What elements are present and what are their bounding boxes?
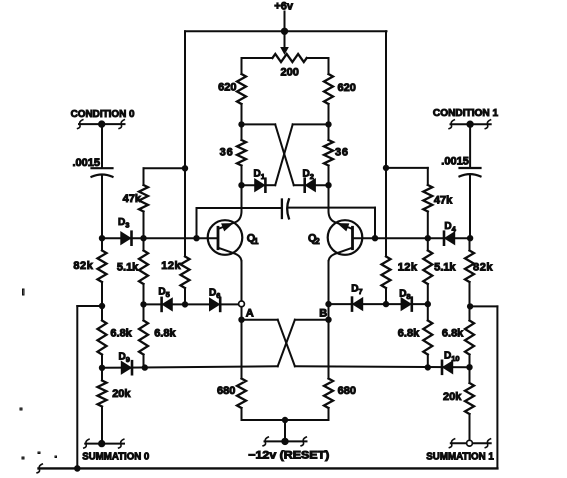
svg-text:CONDITION 0: CONDITION 0 (71, 109, 135, 120)
svg-text:12k: 12k (398, 262, 418, 274)
svg-text:CONDITION 1: CONDITION 1 (433, 108, 499, 119)
svg-text:82k: 82k (73, 260, 93, 272)
svg-text:SUMMATION 1: SUMMATION 1 (426, 451, 494, 462)
svg-text:82k: 82k (473, 261, 493, 273)
svg-text:6.8k: 6.8k (154, 328, 176, 340)
svg-text:2: 2 (315, 236, 320, 246)
svg-text:620: 620 (338, 82, 356, 94)
svg-text:.0015: .0015 (441, 156, 469, 168)
svg-text:20k: 20k (112, 388, 131, 400)
svg-text:680: 680 (338, 385, 356, 397)
svg-text:20k: 20k (443, 391, 462, 403)
svg-text:A: A (246, 308, 254, 320)
svg-text:36: 36 (335, 147, 349, 159)
svg-text:12k: 12k (161, 260, 181, 272)
svg-text:6.8k: 6.8k (110, 328, 132, 340)
svg-text:1: 1 (254, 236, 259, 246)
svg-text:−12v (RESET): −12v (RESET) (248, 449, 329, 461)
svg-text:680: 680 (217, 385, 235, 397)
svg-text:6.8k: 6.8k (398, 327, 420, 339)
svg-text:47k: 47k (434, 195, 453, 207)
svg-text:47k: 47k (123, 193, 142, 205)
svg-text:6.8k: 6.8k (442, 327, 464, 339)
svg-text:SUMMATION 0: SUMMATION 0 (82, 452, 149, 463)
svg-text:620: 620 (218, 82, 236, 94)
svg-text:5.1k: 5.1k (117, 261, 139, 273)
svg-text:36: 36 (220, 147, 234, 159)
svg-text:200: 200 (281, 67, 299, 79)
svg-text:5.1k: 5.1k (434, 261, 456, 273)
